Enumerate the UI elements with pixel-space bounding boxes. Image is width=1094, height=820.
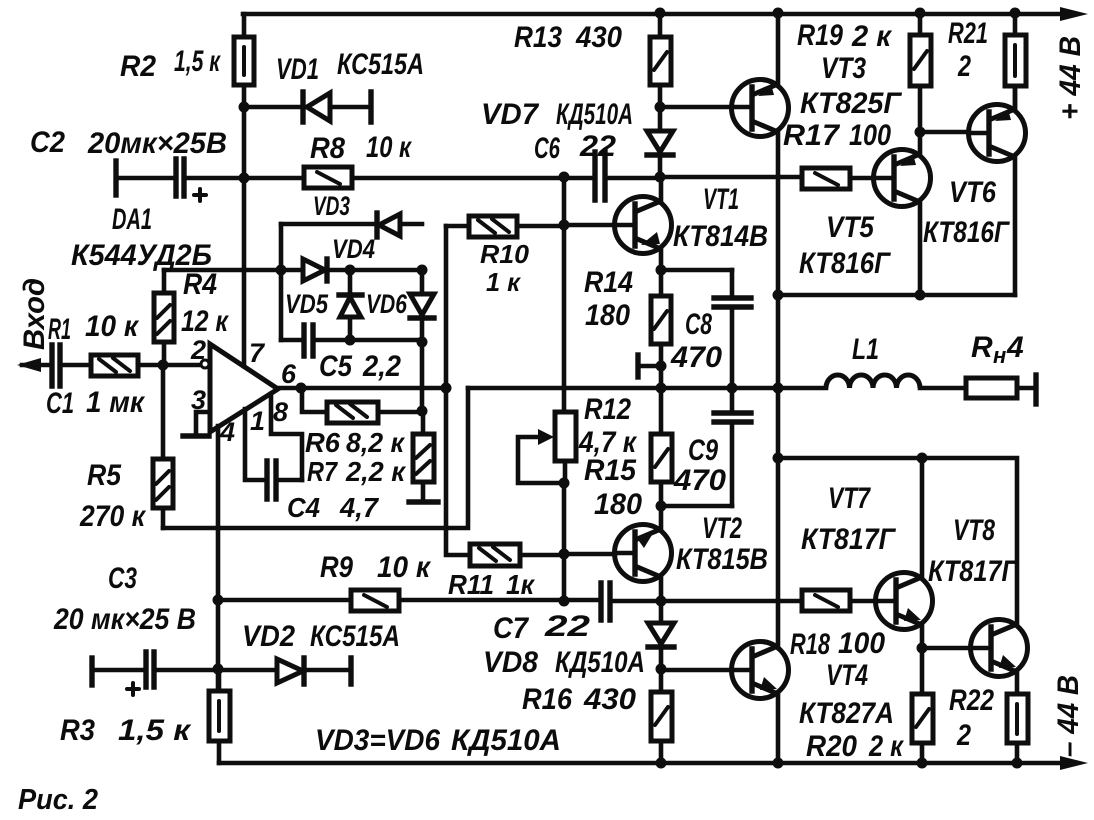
wire limiter loop left edge bbox=[279, 224, 284, 340]
svg-text:180: 180 bbox=[594, 488, 642, 521]
svg-text:10 к: 10 к bbox=[85, 310, 140, 343]
svg-text:C5: C5 bbox=[319, 350, 353, 383]
svg-text:R19: R19 bbox=[797, 19, 843, 52]
svg-text:+ 44 В: + 44 В bbox=[1054, 36, 1087, 120]
capacitor C1 bbox=[22, 363, 91, 368]
svg-text:430: 430 bbox=[583, 683, 636, 716]
svg-text:VD5: VD5 bbox=[285, 289, 329, 319]
svg-text:3: 3 bbox=[191, 385, 206, 415]
svg-text:R9: R9 bbox=[320, 551, 353, 584]
svg-text:R18: R18 bbox=[790, 628, 830, 661]
node R9 tap bbox=[213, 595, 224, 606]
svg-text:10 к: 10 к bbox=[366, 131, 412, 164]
wire VT3 base bbox=[660, 105, 732, 110]
svg-text:VD4: VD4 bbox=[332, 234, 375, 264]
resistor R2 bbox=[234, 37, 254, 85]
svg-text:КД510А: КД510А bbox=[556, 98, 633, 131]
capacitor C5 bbox=[304, 325, 313, 356]
svg-text:КТ827А: КТ827А bbox=[799, 697, 894, 730]
svg-text:1,5 к: 1,5 к bbox=[174, 45, 221, 78]
svg-text:1 мк: 1 мк bbox=[86, 386, 146, 419]
svg-text:R11: R11 bbox=[448, 569, 494, 600]
svg-text:22: 22 bbox=[544, 610, 591, 643]
svg-text:КТ816Г: КТ816Г bbox=[799, 247, 891, 280]
resistor R17 bbox=[802, 168, 850, 189]
node lower bias line bbox=[559, 596, 570, 607]
resistor R18 bbox=[802, 590, 850, 611]
svg-text:2: 2 bbox=[957, 50, 971, 83]
node inverting input bbox=[158, 360, 169, 371]
svg-text:20мк×25В: 20мк×25В bbox=[87, 127, 227, 160]
svg-text:C4: C4 bbox=[287, 492, 320, 523]
wire pin 4 bus down to R3 bbox=[216, 426, 221, 691]
capacitor C4 bbox=[267, 461, 276, 499]
capacitor C3 bbox=[89, 658, 94, 685]
svg-text:2: 2 bbox=[956, 719, 971, 752]
svg-text:VT1: VT1 bbox=[703, 183, 739, 216]
wire upper bias node to R17 bbox=[660, 177, 874, 178]
op-amp U1 DA1 triangle bbox=[210, 344, 278, 432]
resistor R4 bbox=[154, 293, 174, 342]
wire supply bus to op-amp pin 7 bbox=[242, 14, 247, 366]
diode VD5 bbox=[348, 270, 353, 340]
wire -44V bottom rail bbox=[219, 761, 1062, 766]
node limiter middle row bbox=[276, 265, 287, 276]
svg-text:VD7: VD7 bbox=[481, 98, 539, 131]
svg-text:2 к: 2 к bbox=[851, 20, 893, 53]
svg-text:КТ815В: КТ815В bbox=[676, 543, 768, 576]
resistor R22 bbox=[1007, 694, 1028, 743]
node R2 bottom / VD1 bbox=[239, 102, 250, 113]
svg-text:22: 22 bbox=[579, 130, 616, 163]
svg-text:R15: R15 bbox=[584, 454, 637, 487]
transistor Q2 VT2 bbox=[615, 525, 672, 582]
node VD8 / VT4 base bbox=[656, 664, 667, 675]
svg-text:R12: R12 bbox=[584, 393, 631, 426]
svg-text:R: R bbox=[971, 331, 993, 364]
node VT1 emitter / R14 / C8 bbox=[656, 265, 667, 276]
svg-text:C7: C7 bbox=[493, 612, 529, 645]
svg-text:R17: R17 bbox=[783, 119, 840, 152]
svg-text:VT3: VT3 bbox=[821, 52, 866, 85]
wire R19/VT5 node to VT6 base bbox=[920, 130, 969, 135]
node R13 / VD7 / VT3 base bbox=[655, 102, 666, 113]
wire VT1 emitter node to C8 bbox=[661, 268, 732, 273]
svg-text:VT7: VT7 bbox=[828, 482, 871, 515]
svg-text:VD1: VD1 bbox=[276, 53, 319, 86]
tap terminal at R14/R15 bbox=[640, 364, 661, 369]
svg-text:VT6: VT6 bbox=[949, 176, 996, 209]
resistor R1 bbox=[91, 355, 138, 376]
diode VD6 bbox=[420, 270, 425, 342]
node R12 wiper tie bbox=[559, 478, 570, 489]
node R6 / R7 / limiter bbox=[417, 406, 428, 417]
svg-text:12 к: 12 к bbox=[181, 305, 229, 338]
svg-text:C8: C8 bbox=[685, 308, 712, 341]
ground at R7 bbox=[409, 499, 438, 504]
svg-text:R6: R6 bbox=[305, 427, 340, 458]
svg-text:DA1: DA1 bbox=[112, 203, 152, 236]
svg-text:КТ825Г: КТ825Г bbox=[800, 87, 903, 120]
svg-text:1: 1 bbox=[250, 406, 265, 436]
svg-text:2 к: 2 к bbox=[868, 730, 904, 763]
transistor Q7 VT7 bbox=[876, 573, 933, 630]
wire bias node vertical bbox=[562, 177, 567, 412]
wire +44V top rail bbox=[243, 12, 1062, 17]
svg-text:VD2: VD2 bbox=[242, 620, 295, 653]
svg-text:C2: C2 bbox=[30, 126, 65, 159]
ground at pin 3 bbox=[183, 433, 209, 438]
node limiter bottom row bbox=[345, 335, 356, 346]
node C2 / R8 bbox=[239, 173, 250, 184]
resistor R5 bbox=[153, 459, 173, 508]
potentiometer R12 bbox=[555, 412, 576, 461]
resistor R19 bbox=[918, 13, 923, 132]
svg-text:R20: R20 bbox=[806, 730, 857, 763]
node upper bias line bbox=[559, 172, 570, 183]
svg-text:R2: R2 bbox=[120, 50, 156, 83]
wire R4 top to diode limiter bbox=[164, 268, 281, 273]
wire lower collector line y458 bbox=[778, 458, 1017, 624]
svg-text:R8: R8 bbox=[310, 132, 345, 165]
resistor R14 bbox=[659, 270, 664, 388]
wire VT1 base bbox=[564, 223, 615, 228]
wire R10 to R11 bbox=[446, 226, 470, 555]
wire output line bbox=[468, 386, 778, 391]
resistor R21 bbox=[1013, 13, 1018, 109]
svg-text:R7: R7 bbox=[307, 456, 338, 487]
svg-text:R1: R1 bbox=[48, 313, 71, 346]
resistor R13 bbox=[658, 13, 663, 107]
svg-text:270 к: 270 к bbox=[79, 500, 146, 533]
wire lower bias line bbox=[399, 600, 876, 601]
svg-text:1к: 1к bbox=[506, 569, 536, 600]
transistor Q4 VT4 bbox=[732, 642, 789, 699]
svg-text:10 к: 10 к bbox=[377, 551, 432, 584]
svg-text:VT4: VT4 bbox=[826, 659, 868, 692]
op-amp pin 8 stub bbox=[271, 394, 302, 480]
svg-text:R13: R13 bbox=[514, 21, 562, 54]
svg-text:180: 180 bbox=[585, 299, 630, 332]
svg-text:VD3=VD6: VD3=VD6 bbox=[315, 724, 440, 757]
svg-text:C6: C6 bbox=[534, 132, 560, 165]
capacitor C9 bbox=[730, 388, 735, 506]
node C3 / VD2 / R3 bbox=[213, 664, 224, 675]
resistor R11 bbox=[470, 544, 520, 566]
svg-text:C9: C9 bbox=[688, 434, 718, 467]
svg-text:R5: R5 bbox=[87, 459, 122, 492]
svg-text:КС515А: КС515А bbox=[310, 620, 400, 653]
node collector line y295 bbox=[773, 290, 784, 301]
capacitor C7 bbox=[601, 583, 610, 620]
diode VD7 bbox=[658, 107, 663, 177]
resistor Rn load bbox=[966, 378, 1017, 398]
svg-text:1 к: 1 к bbox=[486, 267, 522, 297]
input arrow bbox=[17, 358, 41, 372]
svg-text:100: 100 bbox=[838, 627, 885, 660]
wire VT2 base bbox=[564, 552, 615, 557]
svg-text:8,2 к: 8,2 к bbox=[346, 427, 406, 458]
bottom rail arrow bbox=[1060, 756, 1088, 770]
svg-text:430: 430 bbox=[575, 21, 622, 54]
diode VD4 bbox=[281, 268, 422, 273]
svg-text:VT5: VT5 bbox=[826, 211, 875, 244]
svg-text:R10: R10 bbox=[480, 239, 530, 269]
wire input node to pin 2 bbox=[138, 363, 201, 368]
svg-text:VD6: VD6 bbox=[366, 289, 408, 319]
wire VT7 emitter to VT8 base bbox=[922, 646, 971, 651]
op-amp pin 2 input circle bbox=[201, 360, 209, 368]
wire C9 to VT2 collector node bbox=[661, 504, 732, 509]
resistor R9 bbox=[218, 598, 351, 603]
resistor R3 bbox=[217, 669, 222, 763]
svg-text:КД510А: КД510А bbox=[555, 646, 645, 679]
svg-text:2,2: 2,2 bbox=[362, 350, 401, 383]
resistor R6 bbox=[302, 388, 422, 412]
svg-text:R3: R3 bbox=[60, 714, 95, 747]
resistor R10 bbox=[469, 216, 517, 237]
svg-text:R21: R21 bbox=[948, 17, 988, 50]
svg-text:6: 6 bbox=[281, 359, 297, 389]
wire loop to R6/R7 node bbox=[420, 342, 425, 411]
op-amp pin 3 wire bbox=[196, 412, 210, 434]
capacitor C8 bbox=[730, 270, 735, 388]
svg-text:2,2 к: 2,2 к bbox=[345, 456, 407, 487]
svg-text:Рис. 2: Рис. 2 bbox=[18, 784, 98, 816]
svg-text:КС515А: КС515А bbox=[337, 48, 424, 81]
node R14 tap bbox=[656, 361, 667, 372]
resistor R20 bbox=[920, 648, 925, 763]
resistor R16 bbox=[659, 670, 664, 763]
node VT1 base / R10 bbox=[559, 220, 570, 231]
capacitor C2 bbox=[113, 161, 118, 195]
svg-text:VT2: VT2 bbox=[702, 512, 742, 545]
transistor Q1 VT1 bbox=[615, 197, 672, 254]
svg-text:4: 4 bbox=[219, 417, 235, 447]
diode VD2 bbox=[219, 668, 349, 673]
node VT7 emitter / VT8 base / R20 bbox=[917, 643, 928, 654]
capacitor C6 bbox=[595, 152, 605, 200]
wire VT3 collector down bbox=[776, 132, 781, 646]
wire R12 bottom to lower bias line bbox=[562, 483, 567, 601]
diode VD8 bbox=[659, 601, 664, 670]
node collector line y458 bbox=[773, 453, 784, 464]
svg-text:470: 470 bbox=[673, 464, 726, 497]
node R11 / R12 bbox=[559, 549, 570, 560]
svg-text:R14: R14 bbox=[584, 266, 633, 299]
svg-text:20 мк×25 В: 20 мк×25 В bbox=[53, 603, 196, 636]
svg-text:L1: L1 bbox=[852, 333, 879, 366]
svg-text:н: н bbox=[993, 343, 1006, 368]
op-amp pin 1 stub to C4 bbox=[245, 409, 266, 480]
top rail arrow bbox=[1060, 7, 1088, 21]
transistor Q5 VT5 bbox=[874, 150, 931, 207]
diode VD1 bbox=[244, 105, 369, 110]
node bottom rail junctions bbox=[656, 758, 667, 769]
svg-text:VT8: VT8 bbox=[953, 514, 995, 547]
svg-text:2: 2 bbox=[190, 335, 206, 365]
svg-text:1,5 к: 1,5 к bbox=[118, 714, 192, 747]
wire limiter loop top edge bbox=[281, 222, 422, 227]
svg-text:470: 470 bbox=[670, 341, 722, 374]
wire output to L1 bbox=[778, 386, 966, 391]
svg-text:КД510А: КД510А bbox=[451, 724, 561, 757]
wire feedback from output to R5 bbox=[163, 388, 468, 528]
transistor Q8 VT8 bbox=[971, 620, 1028, 677]
svg-text:– 44 В: – 44 В bbox=[1052, 675, 1085, 757]
node R19 / VT5 emitter / VT6 base bbox=[915, 127, 926, 138]
svg-text:КТ816Г: КТ816Г bbox=[923, 216, 1010, 249]
inductor L1 bbox=[826, 375, 920, 388]
svg-text:4: 4 bbox=[1006, 331, 1024, 364]
svg-text:100: 100 bbox=[849, 119, 891, 152]
transistor Q3 VT3 bbox=[732, 80, 789, 137]
svg-text:Вход: Вход bbox=[18, 278, 51, 350]
resistor R15 bbox=[659, 388, 664, 506]
wire limiter loop bottom edge bbox=[281, 338, 422, 343]
resistor R8 bbox=[304, 167, 352, 188]
svg-text:R22: R22 bbox=[949, 684, 994, 717]
transistor Q6 VT6 bbox=[969, 105, 1026, 162]
svg-text:КТ817Г: КТ817Г bbox=[801, 523, 896, 556]
wire collector line y295 bbox=[778, 293, 1015, 298]
svg-text:7: 7 bbox=[249, 338, 266, 368]
node C9 / VT2 collector bbox=[656, 501, 667, 512]
svg-text:R4: R4 bbox=[183, 268, 217, 301]
potentiometer R12 wiper bbox=[538, 429, 554, 445]
diode VD3 bbox=[374, 213, 379, 237]
svg-text:VD3: VD3 bbox=[313, 191, 350, 221]
wire op-amp output pin 6 bbox=[278, 386, 446, 391]
svg-text:VD8: VD8 bbox=[483, 646, 538, 679]
node output line junctions bbox=[296, 383, 307, 394]
node top rail junctions bbox=[655, 8, 666, 19]
svg-text:8: 8 bbox=[273, 397, 288, 427]
svg-text:КТ814В: КТ814В bbox=[673, 220, 768, 253]
wire VT3 emitter to +44V bbox=[776, 14, 781, 84]
wire VT4 base bbox=[661, 668, 732, 673]
svg-text:R16: R16 bbox=[522, 683, 572, 716]
svg-text:C3: C3 bbox=[108, 562, 137, 595]
svg-text:4,7: 4,7 bbox=[339, 492, 379, 523]
svg-text:КТ817Г: КТ817Г bbox=[928, 555, 1018, 588]
svg-text:C1: C1 bbox=[46, 387, 74, 420]
resistor R7 bbox=[413, 434, 434, 482]
